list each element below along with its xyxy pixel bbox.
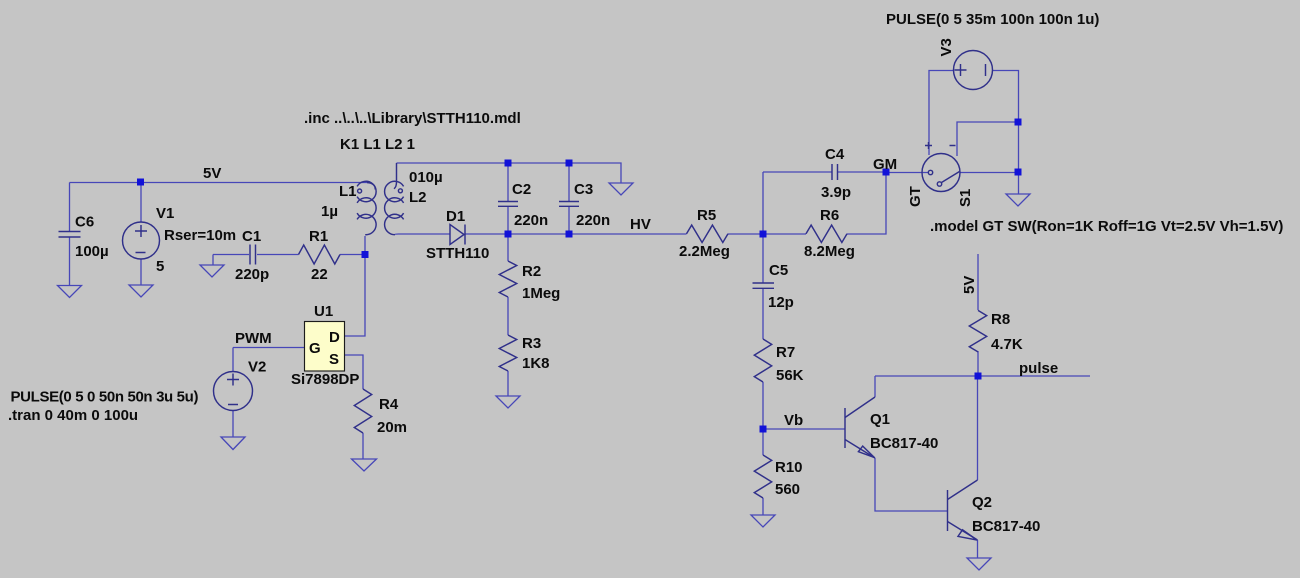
svg-text:20m: 20m <box>377 419 407 436</box>
svg-text:V3: V3 <box>938 38 955 56</box>
svg-text:220n: 220n <box>576 212 610 229</box>
svg-text:5V: 5V <box>203 165 221 182</box>
svg-text:pulse: pulse <box>1019 360 1058 377</box>
svg-text:V1: V1 <box>156 205 174 222</box>
svg-text:L2: L2 <box>409 189 427 206</box>
svg-text:Rser=10m: Rser=10m <box>164 227 236 244</box>
svg-text:5: 5 <box>156 258 164 275</box>
svg-text:R7: R7 <box>776 344 795 361</box>
svg-text:1µ: 1µ <box>321 203 338 220</box>
svg-text:R4: R4 <box>379 396 399 413</box>
svg-text:1K8: 1K8 <box>522 355 550 372</box>
svg-text:L1: L1 <box>339 183 357 200</box>
svg-text:D: D <box>329 329 340 346</box>
svg-text:S1: S1 <box>957 189 974 207</box>
svg-text:R8: R8 <box>991 311 1010 328</box>
svg-text:Si7898DP: Si7898DP <box>291 371 359 388</box>
svg-text:PWM: PWM <box>235 330 272 347</box>
svg-text:S: S <box>329 351 339 368</box>
svg-text:R3: R3 <box>522 335 541 352</box>
svg-text:C4: C4 <box>825 146 845 163</box>
svg-text:V2: V2 <box>248 359 266 376</box>
svg-text:Vb: Vb <box>784 412 803 429</box>
svg-text:BC817-40: BC817-40 <box>870 435 938 452</box>
svg-text:56K: 56K <box>776 367 804 384</box>
svg-text:220p: 220p <box>235 266 269 283</box>
svg-text:4.7K: 4.7K <box>991 336 1023 353</box>
svg-text:G: G <box>309 340 321 357</box>
svg-text:GT: GT <box>907 186 924 207</box>
svg-text:STTH110: STTH110 <box>426 245 489 262</box>
svg-text:PULSE(0 5 35m 100n 100n 1u): PULSE(0 5 35m 100n 100n 1u) <box>886 11 1099 28</box>
svg-text:PULSE(0 5 0 50n 50n 3u 5u): PULSE(0 5 0 50n 50n 3u 5u) <box>11 389 199 406</box>
svg-text:Q1: Q1 <box>870 411 890 428</box>
svg-text:.model GT SW(Ron=1K Roff=1G Vt: .model GT SW(Ron=1K Roff=1G Vt=2.5V Vh=1… <box>930 218 1283 235</box>
svg-text:HV: HV <box>630 216 651 233</box>
svg-text:K1 L1 L2 1: K1 L1 L2 1 <box>340 136 415 153</box>
svg-text:3.9p: 3.9p <box>821 184 851 201</box>
svg-text:C2: C2 <box>512 181 531 198</box>
svg-text:R2: R2 <box>522 263 541 280</box>
svg-text:BC817-40: BC817-40 <box>972 518 1040 535</box>
svg-text:C5: C5 <box>769 262 788 279</box>
svg-text:5V: 5V <box>961 276 978 294</box>
svg-text:R6: R6 <box>820 207 839 224</box>
svg-text:C1: C1 <box>242 228 261 245</box>
svg-text:22: 22 <box>311 266 328 283</box>
svg-text:Q2: Q2 <box>972 494 992 511</box>
svg-text:U1: U1 <box>314 303 333 320</box>
svg-text:.inc ..\..\..\Library\STTH110.: .inc ..\..\..\Library\STTH110.mdl <box>304 110 521 127</box>
svg-text:560: 560 <box>775 481 800 498</box>
svg-text:010µ: 010µ <box>409 169 443 186</box>
svg-text:220n: 220n <box>514 212 548 229</box>
svg-text:C6: C6 <box>75 214 94 231</box>
svg-text:R5: R5 <box>697 207 716 224</box>
svg-text:12p: 12p <box>768 294 794 311</box>
svg-text:8.2Meg: 8.2Meg <box>804 243 855 260</box>
svg-text:R10: R10 <box>775 459 803 476</box>
svg-text:D1: D1 <box>446 208 465 225</box>
svg-text:100µ: 100µ <box>75 243 109 260</box>
svg-text:R1: R1 <box>309 228 328 245</box>
svg-text:C3: C3 <box>574 181 593 198</box>
svg-text:1Meg: 1Meg <box>522 285 560 302</box>
svg-text:2.2Meg: 2.2Meg <box>679 243 730 260</box>
svg-text:.tran 0 40m 0 100u: .tran 0 40m 0 100u <box>8 407 138 424</box>
svg-text:GM: GM <box>873 156 897 173</box>
